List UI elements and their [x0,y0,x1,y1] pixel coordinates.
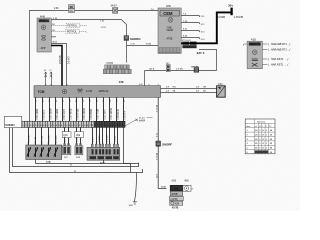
svg-text:0.5 GN: 0.5 GN [28,135,30,142]
svg-text:0.5 GR: 0.5 GR [48,135,50,142]
CEM right pin 7.6 [181,16,199,18]
svg-text:2: 2 [118,143,120,144]
wire: strip right to ground collector [124,127,139,163]
wire: ECM pin to thin drop x66.8 [51,44,66,86]
svg-text:CEM: CEM [163,11,173,16]
svg-text:42-7B: 42-7B [172,207,179,210]
svg-text:0.50 GN/R: 0.50 GN/R [37,108,39,119]
svg-text:0.75 SB: 0.75 SB [156,152,158,160]
right block 4/28 [247,39,262,68]
svg-text:SHORF: SHORF [162,142,172,146]
wire: ECM pin to SHORG drop [51,20,126,63]
thick battery wire from CEM to 30+ bus [181,12,231,43]
CEM right pin 7.45 [181,23,199,25]
svg-text:Sprocket: Sprocket [257,120,266,123]
svg-text:0.5 BL: 0.5 BL [115,135,117,142]
svg-text:0.5 BL: 0.5 BL [35,135,37,142]
table gear legend [245,119,275,154]
svg-text:PETROL: PETROL [67,31,78,34]
pin labels above 14/1 14/8 [64,144,82,145]
svg-text:0.50 Y/GR: 0.50 Y/GR [98,108,100,119]
wire: loop horizontal [145,70,217,72]
svg-text:s1: s1 [255,126,257,128]
right block left pin [243,44,247,45]
wire: SHORG branch to CEM left pin [127,45,159,47]
svg-text:5: 5 [148,84,150,85]
svg-text:0.5 VO: 0.5 VO [56,135,58,142]
pin labels above 8/07 [92,143,119,144]
arrow stub wire 1 into TCM [44,70,47,86]
svg-text:8: 8 [51,84,53,85]
svg-text:( , HARANB.RT1 . ,( .: ( , HARANB.RT1 . ,( . [268,49,292,52]
svg-text:0.50 BL/Y: 0.50 BL/Y [44,109,46,120]
inline label box on 14/8 wires [75,132,84,138]
svg-text:300B: 300B [161,187,167,189]
TCM module bar [34,86,161,98]
wires strip to 14/1 and 14/8 [65,127,81,145]
right block pin lines with harness labels [262,43,292,67]
svg-text:APP: APP [41,47,46,50]
svg-text:(417B): (417B) [171,198,178,201]
svg-text:ABS: ABS [250,43,255,46]
svg-text:( , HAR.RST1 . . ,( .: ( , HAR.RST1 . . ,( . [268,58,290,61]
ECM module 4/46 [37,15,51,52]
annotation PETROL (upper) [51,23,87,27]
module 4/35 [170,181,194,210]
svg-text:EXT. X: EXT. X [197,52,205,55]
svg-text:PETROL: PETROL [67,25,78,28]
svg-text:TCM: TCM [38,90,45,94]
svg-text:4/35B: 4/35B [171,193,178,196]
pin tick labels above TCM bar [46,84,161,85]
svg-text:1 PO/35: 1 PO/35 [234,15,244,19]
annotation PETROL (lower) [51,29,87,33]
svg-text:2.06: 2.06 [54,8,59,10]
ground bus 1 [13,128,139,167]
svg-text:0.50 BL/R: 0.50 BL/R [118,109,120,120]
svg-text:s2: s2 [259,126,261,128]
wire: battery feed from strip up left side and across top [30,11,159,122]
svg-text:31.43: 31.43 [139,117,145,119]
svg-text:2: 2 [46,84,48,85]
strip end label 64/64 [125,120,137,127]
wires strip to S7B [29,127,56,145]
svg-text:31/32B: 31/32B [183,47,190,49]
svg-text:SB: SB [70,7,74,9]
CEM right pin 8.56 [181,38,199,40]
wire: thick ECM output to TCM [51,46,62,86]
wire: TCM to X-box line 1 [161,88,217,90]
svg-text:31/8B: 31/8B [171,187,178,191]
svg-text:0.50 W/SB: 0.50 W/SB [71,108,73,119]
svg-text:2: 2 [103,143,105,144]
svg-text:9: 9 [67,84,69,85]
svg-text:0.50 GN/W: 0.50 GN/W [84,107,86,119]
svg-text:0.5 SB: 0.5 SB [42,135,44,142]
pin boxes on 14/1 and 14/8 [64,144,82,147]
component 14/1 [62,146,71,159]
svg-text:37/3 B: 37/3 B [106,63,113,65]
svg-text:0.50 BN/R: 0.50 BN/R [91,109,93,120]
connector X-box 1/40 [217,84,226,97]
connector strip pin cells [22,121,125,127]
wire: TCM to X-box line 2 [161,92,217,94]
svg-text:47B: 47B [119,80,124,84]
CEM right pin 8.57 [181,31,199,33]
svg-text:0.75 SB: 0.75 SB [156,104,158,112]
svg-text:1: 1 [62,84,64,85]
wire: ECM pin short stub [51,36,56,38]
svg-text:41-50: 41-50 [86,90,93,93]
svg-text:ECM: ECM [40,20,45,23]
svg-text:142 B: 142 B [149,69,155,71]
svg-text:2: 2 [266,126,267,128]
svg-text:0.50 GR/W: 0.50 GR/W [111,107,113,119]
svg-text:SHORG: SHORG [130,37,141,41]
svg-text:0.50 R/Y: 0.50 R/Y [125,110,127,119]
svg-text:GN: GN [203,87,207,89]
svg-text:0.5 R: 0.5 R [77,137,79,143]
svg-text:4: 4 [158,84,160,85]
svg-text:0.5 GR: 0.5 GR [107,135,109,142]
svg-text:1: 1 [64,144,66,145]
CEM module 4/56 [158,5,181,54]
svg-text:4/56: 4/56 [166,5,171,8]
svg-text:31/32B: 31/32B [217,15,225,19]
connector 147 on loop [166,63,170,72]
svg-text:( , HAR.RST1 . . ,( .: ( , HAR.RST1 . . ,( . [268,64,290,67]
connector 34/3F on top wire [111,6,118,14]
connector SU0084 box [4,116,21,127]
svg-text:AT5B: AT5B [167,37,173,40]
table data rows [247,130,273,154]
wire colour labels between TCM and strip [37,107,127,119]
ground bus 2 [10,128,143,173]
svg-text:30+: 30+ [228,4,233,8]
svg-text:0.5 W: 0.5 W [65,136,67,143]
svg-text:4T51.04): 4T51.04) [182,40,191,42]
wires strip to 8/07 block [93,127,118,147]
svg-text:64/64: 64/64 [139,119,146,122]
svg-text:0.5 Y: 0.5 Y [93,136,95,142]
wire labels below strip left [28,135,116,143]
splice SHORG [124,36,141,41]
svg-text:17/17: 17/17 [101,27,107,29]
svg-text:2: 2 [68,144,70,145]
svg-text:0.5 BN: 0.5 BN [99,135,101,142]
svg-text:0.5 VO: 0.5 VO [67,56,70,64]
inline label box on 14/1 wires [62,132,71,138]
svg-text:0.75 SB: 0.75 SB [59,55,62,64]
svg-text:2: 2 [80,144,82,145]
solenoid block 8/07 [87,147,120,165]
CEM bottom-right connector boxes [182,42,196,49]
TCM pin number labels below bar [36,99,126,102]
svg-text:0.50 SB/W: 0.50 SB/W [50,108,52,120]
svg-text:GEAR: GEAR [167,29,174,32]
svg-text:R.SB: R.SB [146,44,152,46]
svg-text:34/3 F: 34/3 F [111,6,118,8]
svg-text:( , HARANB.RT1 . ,( .: ( , HARANB.RT1 . ,( . [268,43,292,46]
splice SHORF [156,141,172,146]
svg-text:2: 2 [109,143,111,144]
svg-text:L: L [262,126,263,128]
svg-text:4/56: 4/56 [184,181,189,183]
wire: CEM loop down to SHORC [199,50,217,71]
svg-text:4/35: 4/35 [172,181,177,183]
fuse SB6/1 on top wire [69,5,75,13]
svg-text:1: 1 [76,144,78,145]
30+ bus bar [230,8,232,16]
pin boxes on 8/07 block [91,144,118,147]
svg-text:0.50 SB/Y: 0.50 SB/Y [104,109,106,120]
wire: TCM down to SHORF and 4/35 [158,97,166,188]
svg-text:GN: GN [173,87,177,89]
svg-text:AW50-42: AW50-42 [99,90,110,93]
TCM lower pin wires to strip [36,97,124,121]
arrow stub wire 2 into TCM [49,70,52,86]
pin labels above S7B [28,142,58,144]
svg-text:Gear: Gear [246,125,251,128]
svg-text:42B: 42B [175,204,180,206]
svg-text:0.50 GR/R: 0.50 GR/R [57,108,59,119]
svg-text:1/82: 1/82 [76,135,81,137]
wire: loop corner down to TCM [144,71,146,86]
svg-text:SU0084: SU0084 [5,123,15,127]
solenoid pack S7B [26,145,62,164]
connector strip row background [22,121,125,127]
connector 37/3B [103,63,131,74]
splice SHORC [191,66,199,72]
svg-text:0.50 R/GN: 0.50 R/GN [77,108,79,119]
svg-text:0.50 VO/Y: 0.50 VO/Y [64,108,66,119]
wire: ground drop to 3/06 [134,173,136,202]
ground collector wire [36,160,131,173]
component 14/8 [75,146,83,159]
svg-text:0.5 SB: 0.5 SB [176,69,183,71]
svg-text:A.55: A.55 [53,41,58,44]
svg-text:2: 2 [96,143,98,144]
